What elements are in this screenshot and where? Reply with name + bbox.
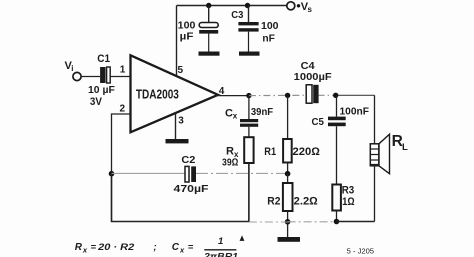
svg-text:2πBR1: 2πBR1 <box>203 252 238 257</box>
svg-text:x: x <box>233 112 238 121</box>
svg-text:100nF: 100nF <box>340 106 370 118</box>
wire output pin4 to Cx node <box>216 95 249 97</box>
ground (R2, main) <box>287 222 289 237</box>
op-amp U1 TDA2003 <box>131 55 219 132</box>
svg-text:C2: C2 <box>181 154 195 166</box>
ground (C3) <box>239 52 260 56</box>
label +Vs <box>297 4 300 7</box>
svg-text:10 µF: 10 µF <box>88 84 115 96</box>
wire left vertical (pin2 node down) <box>111 174 113 222</box>
svg-text:=: = <box>91 242 97 253</box>
capacitor C1 (input, electrolytic) <box>100 67 110 83</box>
svg-text:2.2Ω: 2.2Ω <box>294 196 319 208</box>
svg-text:5: 5 <box>178 65 184 76</box>
node R2 / bottom rail / ground junction <box>285 219 291 225</box>
resistor Rx <box>244 137 253 163</box>
svg-text:1: 1 <box>218 236 223 247</box>
svg-text:TDA2003: TDA2003 <box>136 87 179 101</box>
wire C4 to C5 node (dash-dot) <box>319 94 334 96</box>
wire right vertical (speaker branch) <box>374 95 376 144</box>
wire bottom rail right (solid) <box>337 221 375 223</box>
svg-text:µF: µF <box>180 31 194 43</box>
capacitor C2 (feedback, electrolytic) <box>185 166 196 182</box>
svg-text:C: C <box>225 108 233 120</box>
node output / C5 junction <box>333 93 338 98</box>
wire pin 3 to ground <box>175 112 177 139</box>
svg-text:C: C <box>172 242 180 253</box>
svg-text:C5: C5 <box>312 116 325 128</box>
svg-text:=: = <box>188 242 194 253</box>
wire output Cx node to C4 (dash-dot) <box>249 94 306 96</box>
node supply rail / 100uF junction <box>206 3 211 8</box>
wire Vi to C1 <box>81 76 100 78</box>
formula Rx = 20*R2 ; Cx = 1/(2piBR1) <box>75 236 238 257</box>
svg-text:L: L <box>402 142 408 153</box>
marker triangle near formula <box>240 235 245 241</box>
node R3 / bottom rail junction <box>334 219 340 225</box>
svg-text:R1: R1 <box>264 146 276 158</box>
capacitor 100uF (supply decoupling, electrolytic) <box>199 6 218 52</box>
wire C2 to R1/R2 node (faint) <box>196 172 288 174</box>
ground (100uF) <box>199 52 220 56</box>
svg-text:i: i <box>71 64 73 73</box>
svg-text:39Ω: 39Ω <box>222 157 238 169</box>
svg-text:1000µF: 1000µF <box>294 72 332 83</box>
capacitor C5 <box>328 95 346 184</box>
svg-text:x: x <box>179 246 185 255</box>
capacitor C3 <box>238 6 258 52</box>
svg-text:R: R <box>75 242 83 253</box>
wire pin 5 riser <box>176 6 178 76</box>
wire C1 to pin 1 <box>111 76 131 78</box>
ground (pin 3) <box>166 139 189 143</box>
resistor R1 <box>283 95 292 173</box>
svg-text:39nF: 39nF <box>251 106 274 118</box>
svg-text:s: s <box>308 5 313 14</box>
svg-text:R2: R2 <box>267 196 280 208</box>
svg-text:x: x <box>82 246 88 255</box>
svg-text:;: ; <box>154 242 157 253</box>
wire feedback pin2-node to C2 (faint) <box>112 172 186 174</box>
wire Rx to bottom rail <box>248 163 250 222</box>
svg-text:C3: C3 <box>231 9 243 21</box>
resistor R2 <box>283 174 293 222</box>
node pin2 / C2 junction <box>109 171 115 177</box>
svg-text:5 - J205: 5 - J205 <box>347 249 374 256</box>
svg-text:3V: 3V <box>90 96 103 108</box>
resistor R3 <box>332 185 341 222</box>
node supply rail / C3 junction <box>245 3 250 8</box>
node output / Cx junction <box>246 93 251 98</box>
svg-text:C4: C4 <box>301 60 315 72</box>
speaker RL <box>370 134 389 174</box>
terminal +Vs <box>287 2 295 10</box>
svg-text:470µF: 470µF <box>174 184 209 195</box>
svg-text:nF: nF <box>262 33 275 45</box>
wire top supply rail <box>177 5 287 7</box>
wire bottom rail middle (faint) <box>249 221 288 223</box>
svg-text:1: 1 <box>120 65 126 76</box>
svg-text:220Ω: 220Ω <box>293 146 321 158</box>
svg-text:100: 100 <box>178 19 196 31</box>
terminal Vi <box>73 72 81 80</box>
wire C5 node to speaker corner <box>334 94 375 96</box>
svg-text:20 · R2: 20 · R2 <box>97 242 135 253</box>
node R1 / R2 / C2 junction <box>285 171 291 177</box>
wire bottom rail left (solid) <box>112 163 249 222</box>
capacitor Cx <box>240 96 258 138</box>
svg-text:2: 2 <box>120 103 126 114</box>
svg-text:R3: R3 <box>342 185 355 197</box>
svg-text:C1: C1 <box>97 53 110 65</box>
wire pin 2 to left vertical <box>112 114 131 174</box>
svg-text:100: 100 <box>261 20 279 32</box>
capacitor C4 (output coupling, electrolytic) <box>306 85 318 103</box>
svg-text:3: 3 <box>178 116 184 127</box>
node output / R1 junction <box>285 93 290 98</box>
svg-text:1Ω: 1Ω <box>342 196 355 208</box>
